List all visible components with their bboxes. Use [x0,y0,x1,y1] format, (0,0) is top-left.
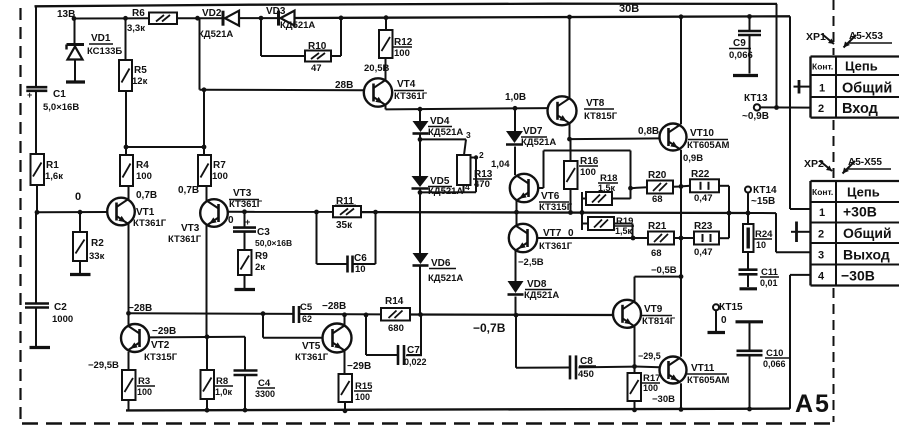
svg-text:2: 2 [818,229,824,241]
wire VT3 collector [206,225,208,337]
svg-text:100: 100 [355,392,370,402]
wire VD6 link [419,192,421,253]
node VD4 bottom [418,134,423,142]
svg-text:−29В: −29В [152,326,176,337]
wire R13 bottom [420,185,476,192]
label 20.5V [364,63,389,74]
svg-text:1: 1 [819,207,825,219]
svg-text:С7: С7 [407,345,420,356]
svg-text:R7: R7 [213,160,226,171]
resistor R15 [339,374,374,402]
node VT8 emitter [567,137,572,142]
ground C9 [733,74,758,77]
svg-text:3300: 3300 [255,389,275,399]
wire VT4 collector [385,58,387,80]
svg-text:VT3: VT3 [181,223,200,234]
node R5 top [123,16,128,21]
label A5 [795,390,831,418]
wire R13 wiper [471,155,479,192]
node base feed [202,87,207,92]
svg-text:−28В: −28В [322,301,346,312]
svg-text:А5-Х53: А5-Х53 [849,31,883,42]
svg-text:С5: С5 [300,302,313,313]
transistor VT9 [613,300,676,328]
capacitor C6 [348,253,368,275]
svg-text:КД521А: КД521А [524,290,559,301]
svg-text:3,3к: 3,3к [127,23,145,34]
capacitor C7 [398,345,427,367]
wire VT10 emitter output column [680,150,682,357]
svg-text:100: 100 [212,171,228,182]
node R11 left [314,210,319,215]
wire VT7 emitter [515,251,517,282]
wire M mid [299,313,381,315]
svg-text:КД521А: КД521А [428,273,463,284]
node VT5 emitter tap [342,312,347,317]
node R2 tap [78,210,83,215]
resistor R21 [633,221,681,259]
wire VT6 base [539,151,631,199]
diode VD7 [506,108,556,175]
svg-text:Конт.: Конт. [812,62,833,72]
svg-text:−29,5В: −29,5В [88,360,119,371]
resistor R19 [582,216,634,238]
wire bottom rail [126,409,790,411]
svg-text:VT8: VT8 [586,98,605,109]
label 1.04 [491,159,510,170]
chassis XP2 common [791,222,811,243]
wire 30V rail [177,3,790,18]
node VT5 base tap [261,311,266,316]
svg-text:1,5к: 1,5к [598,183,616,193]
svg-text:С9: С9 [733,38,746,49]
svg-text:28В: 28В [335,80,353,91]
svg-text:R9: R9 [255,251,268,262]
node C9 rail [747,14,752,19]
capacitor C9 [729,17,761,74]
transistor VT10 [660,124,730,152]
svg-text:−2,5В: −2,5В [518,257,544,268]
svg-text:R4: R4 [136,160,149,171]
svg-text:VD8: VD8 [527,279,547,290]
svg-text:КТ15: КТ15 [719,302,743,313]
svg-text:R5: R5 [134,65,147,76]
svg-text:КТ315Г: КТ315Г [539,202,573,213]
wire rail to XP2 out [748,213,811,252]
resistor R17 [628,367,661,410]
node output VT9C [679,274,684,279]
ground VD1 [66,80,85,83]
svg-text:10: 10 [756,240,766,250]
svg-text:−30В: −30В [652,394,675,405]
svg-text:−0,7В: −0,7В [473,321,506,335]
svg-text:Цепь: Цепь [845,59,878,74]
resistor R18 [582,173,631,205]
svg-text:−0,5В: −0,5В [651,265,677,276]
wire input left column [35,6,37,87]
svg-text:450: 450 [578,369,594,380]
wire R3 rail [128,400,130,410]
svg-text:1,0к: 1,0к [215,387,233,397]
svg-text:5,0×16В: 5,0×16В [43,102,79,113]
svg-text:50,0×16В: 50,0×16В [255,238,292,248]
capacitor C5 [294,302,313,324]
wire VT2 emitter [128,352,130,370]
wire VT1 emitter [128,186,130,200]
wire VT6 emitter [516,201,518,213]
svg-text:С3: С3 [257,227,270,238]
svg-text:100: 100 [137,387,152,397]
wire VT11 emitter [680,383,682,409]
resistor R9 [238,232,268,288]
wire R5 to R4 [125,91,127,155]
wire VT3 base [229,211,334,213]
test point KT13 [742,93,811,122]
label -29V R15 [347,361,371,372]
capacitor C11 [739,252,780,288]
svg-text:Общий: Общий [842,81,892,97]
svg-text:−30В: −30В [841,268,875,284]
ground C2 [30,346,51,349]
ground KT15 [708,331,726,334]
label 0 VT3 [228,215,234,226]
svg-text:1,5к: 1,5к [615,226,633,236]
svg-text:0,01: 0,01 [760,278,778,288]
label 1.0V [505,92,526,103]
dashed border left [19,8,21,421]
wire VT3 emitter [206,186,208,201]
diode VD6 [413,253,464,315]
transistor VT6 [510,174,573,213]
node VT9E C8 [632,364,637,369]
svg-text:~15В: ~15В [751,196,775,207]
svg-text:0: 0 [75,191,81,203]
transistor VT2 [121,324,178,363]
label -0.5V [651,265,677,276]
svg-text:+: + [27,90,32,100]
svg-text:1,04: 1,04 [491,159,510,170]
label -29.5V R3 [88,360,119,371]
node VD5 bottom [418,189,423,195]
wire riser to R7 [203,90,205,155]
svg-text:КТ361Г: КТ361Г [133,218,167,229]
label pin 4 [465,182,470,192]
node R10 right junction [339,16,344,21]
node VD2 anode junction [195,16,200,21]
svg-text:+: + [245,217,250,227]
svg-text:КД521А: КД521А [198,29,233,40]
svg-text:100: 100 [580,167,596,178]
svg-text:КД521А: КД521А [428,127,463,138]
svg-text:VD4: VD4 [430,116,450,127]
diode VD4 [413,109,464,138]
wire VT7 base [538,237,634,239]
node KT13 input [774,105,779,110]
wire emitter feed [126,146,204,148]
wire VT1 collector [128,223,130,324]
node R22 R23 rail [727,211,732,216]
svg-text:VT4: VT4 [397,79,416,90]
resistor R3 [122,370,155,400]
node R16 rail [568,210,573,215]
label -0.7V [473,321,506,335]
chassis XP1 common [794,80,811,94]
node VD6 M [418,312,423,317]
wire -30V column [790,275,811,409]
capacitor C6 loop [317,212,376,264]
wire M right [410,313,613,316]
capacitor C2 [25,212,73,346]
wire VT9 emitter [634,326,636,367]
resistor R4 [120,155,152,186]
svg-text:КТ14: КТ14 [753,185,777,196]
resistor R8 [201,337,234,410]
label -29.5 VT11 [638,351,661,361]
node C3 tap [242,209,247,214]
svg-text:ХР2: ХР2 [804,158,824,170]
resistor R6 [127,8,177,34]
wire rail mid [361,211,748,214]
label 0.7V right [178,185,199,196]
label 0 input [75,191,81,203]
wire VT9 collector [635,277,682,302]
svg-text:КТ361Г: КТ361Г [394,91,428,102]
transistor VT7 [509,224,573,252]
svg-text:КТ361Г: КТ361Г [539,241,573,252]
svg-text:2: 2 [818,103,824,115]
svg-text:68: 68 [651,248,662,259]
svg-text:КТ814Г: КТ814Г [642,316,676,327]
svg-text:10: 10 [355,264,366,275]
svg-text:+30В: +30В [843,204,877,220]
svg-text:0,8В: 0,8В [638,126,659,137]
wire VT4 emitter [386,105,549,110]
svg-text:0,7В: 0,7В [136,190,157,201]
svg-text:R22: R22 [691,169,710,180]
capacitor C7 loop [366,315,421,355]
svg-text:0: 0 [721,315,727,326]
svg-text:КС133Б: КС133Б [87,46,122,57]
ground C11 [740,287,758,290]
svg-text:33к: 33к [89,251,105,262]
svg-text:0,9В: 0,9В [683,153,703,164]
resistor R24 [743,213,773,252]
label XP1 [806,31,892,48]
wire VD1 column [74,19,76,45]
svg-text:1000: 1000 [52,314,73,325]
label 28V [335,80,353,91]
svg-text:0,47: 0,47 [694,193,713,204]
wire R1 to rail [36,185,38,212]
svg-text:КТ315Г: КТ315Г [144,352,178,363]
wire VT8 collector [569,17,571,99]
node VT8 collector rail [567,15,572,20]
svg-text:Цепь: Цепь [847,185,880,200]
wire input top line [35,4,778,7]
svg-text:R1: R1 [46,160,59,171]
chassis bar C10 [736,320,764,323]
svg-text:КД521А: КД521А [428,186,463,197]
node R12 top [384,15,389,20]
diode VD3 [266,6,315,31]
wire R18 R19 tie [581,192,583,230]
node rail R1 [35,210,40,215]
svg-text:VT9: VT9 [644,304,663,315]
wire VT5 base [263,314,323,338]
svg-text:VT10: VT10 [690,128,714,139]
wire VT5 collector [344,351,346,375]
capacitor C4 [234,337,276,410]
node M start [126,311,131,316]
node R7 riser [202,145,207,150]
wire rail left start [37,211,107,213]
svg-text:VT3: VT3 [233,188,252,199]
svg-text:47: 47 [311,63,322,74]
svg-text:А5-Х55: А5-Х55 [848,157,882,168]
svg-text:100: 100 [394,48,410,59]
capacitor C10 [737,322,790,409]
svg-text:R21: R21 [648,221,667,232]
transistor VT3 [168,188,263,245]
node R4 top [124,145,129,150]
zener VD1 [67,33,123,81]
svg-text:R6: R6 [132,8,145,19]
resistor R10 [305,41,331,74]
svg-text:VT6: VT6 [541,191,560,202]
node R15 rail [343,408,348,413]
node R14 left C7 [364,313,369,318]
svg-text:0,066: 0,066 [763,359,786,369]
capacitor C8 [570,355,596,380]
svg-text:А5: А5 [795,390,831,418]
resistor R22 [681,169,729,213]
svg-text:КТ13: КТ13 [744,93,768,104]
resistor R5 [119,18,148,91]
label pin 3 [466,130,471,140]
node VD8 M [514,313,519,318]
wire R13 top [420,139,466,155]
svg-text:30В: 30В [619,3,639,15]
svg-text:3: 3 [466,130,471,140]
wire VT7 collector [516,212,518,225]
svg-text:62: 62 [302,314,312,324]
transistor VT4 [364,78,428,106]
node R8 top [205,334,210,339]
label -28V right [322,301,346,312]
svg-text:1,0В: 1,0В [505,92,526,103]
svg-text:1: 1 [819,83,825,95]
svg-text:12к: 12к [132,76,148,87]
label 0.9V [683,153,703,164]
svg-text:68: 68 [652,194,663,205]
diode VD8 [508,279,560,315]
wire R15 rail [344,402,346,411]
svg-text:VT5: VT5 [302,341,321,352]
svg-text:С6: С6 [354,253,367,264]
node VT10 collector rail [679,14,684,19]
svg-text:КТ361Г: КТ361Г [229,199,263,210]
diode VD2 [198,8,239,40]
svg-text:0: 0 [228,215,234,226]
wire VD2 column down [200,18,364,90]
ground R9 [235,288,256,291]
transistor VT5 [295,324,352,364]
label 0 VT7 [568,228,574,239]
svg-text:2: 2 [479,150,484,160]
wire VT10 collector [680,17,682,125]
node VD4 top [418,107,423,112]
svg-text:КТ605АМ: КТ605АМ [687,140,730,151]
dashed border right [833,0,835,422]
svg-text:0,7В: 0,7В [178,185,199,196]
wire 30V to XP2 [790,16,811,209]
node R19 R21 junction [631,236,636,241]
transistor VT8 [548,96,618,125]
svg-text:R10: R10 [308,41,327,52]
svg-text:КТ361Г: КТ361Г [295,352,329,363]
connector table XP1 [811,57,900,118]
wire VT11 collector [680,277,682,357]
wire input right column [776,4,778,108]
svg-text:−29В: −29В [347,361,371,372]
label 0.8V [638,126,659,137]
node VT11 rail [679,407,684,412]
test point KT14 [745,185,777,213]
label -30V [652,394,675,405]
node R8 rail [205,408,210,413]
svg-text:VD3: VD3 [266,6,286,17]
resistor R11 [333,196,361,231]
svg-text:КД521А: КД521А [521,137,556,148]
node R11 right [373,210,378,215]
svg-text:VT2: VT2 [151,340,170,351]
capacitor C3 [233,212,292,248]
wire VT2 base [149,336,245,339]
node VT6 VT7 rail [514,210,519,215]
svg-text:−28В: −28В [128,303,152,314]
svg-text:4: 4 [818,271,825,283]
svg-text:R23: R23 [694,221,713,232]
svg-text:~0,9В: ~0,9В [742,111,769,122]
node R17 rail [632,408,637,413]
wire 13V node [57,9,149,20]
svg-text:VD7: VD7 [523,126,543,137]
svg-text:100: 100 [643,383,658,393]
svg-text:0,022: 0,022 [404,357,427,367]
svg-text:R14: R14 [385,296,404,307]
wire VT11 base [635,366,660,369]
node VD3 R10 junction [259,16,264,21]
node R18 tie rail [580,210,585,215]
label XP2 [804,157,891,174]
svg-text:0,47: 0,47 [694,247,713,258]
transistor VT1 [107,198,166,229]
svg-text:R2: R2 [91,238,104,249]
label -2.5V [518,257,544,268]
resistor R20 [631,170,682,205]
svg-text:С2: С2 [54,302,67,313]
ground R2 [70,273,91,276]
node C10 rail [747,407,752,412]
label 0.7V left [136,190,157,201]
label -29V VT2 [152,326,176,337]
svg-text:1,6к: 1,6к [45,171,63,182]
svg-text:VT1: VT1 [136,207,155,218]
resistor R10 loop [261,18,341,56]
diode VD5 [412,139,464,197]
resistor R12 [379,18,413,59]
svg-text:КТ815Г: КТ815Г [584,111,618,122]
